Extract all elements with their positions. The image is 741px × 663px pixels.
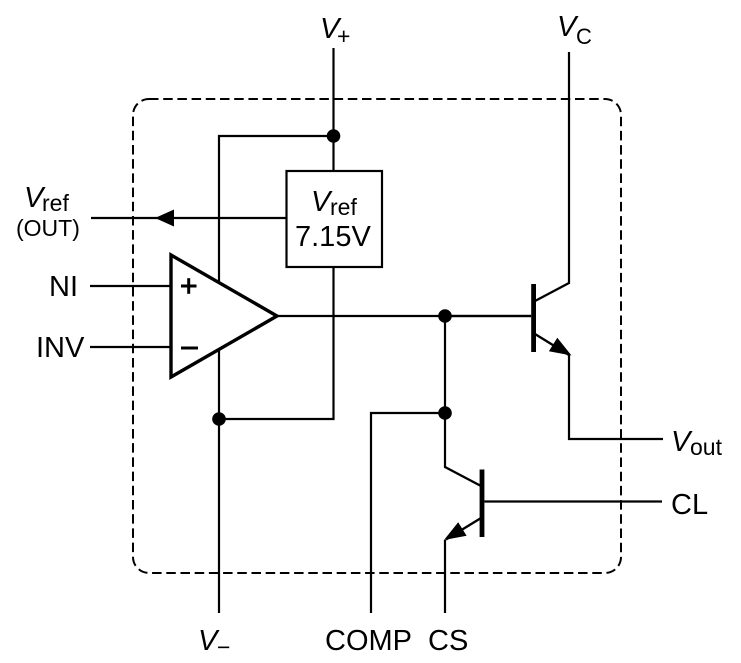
voltage reference box U2 Vref 7.15V: [287, 171, 383, 267]
Q1 base bar: [531, 284, 536, 352]
svg-text:7.15V: 7.15V: [295, 221, 371, 253]
Q2 collector line: [445, 467, 481, 486]
wire Vref box bottom to V- rail: [219, 267, 334, 419]
node: output junction dot: [438, 309, 452, 323]
svg-text:−: −: [217, 634, 230, 660]
node: COMP junction dot: [438, 406, 452, 420]
svg-text:NI: NI: [49, 271, 78, 303]
arrowhead on Vref output wire: [155, 210, 174, 227]
wire Vref output: [91, 217, 287, 219]
svg-text:(OUT): (OUT): [16, 215, 80, 241]
wire Q1 emitter to Vout: [569, 354, 663, 439]
node: V- junction dot: [212, 412, 226, 426]
wire VC stem to Q1 collector: [568, 52, 570, 284]
wire NI input: [90, 285, 172, 287]
svg-text:out: out: [690, 434, 723, 460]
wire V-: [218, 419, 220, 613]
wire COMP node to Q2 collector: [444, 413, 446, 468]
pin label V+: [320, 13, 350, 49]
svg-text:C: C: [576, 24, 592, 49]
wire COMP: [371, 413, 445, 613]
value label Vref inside box: [311, 186, 357, 220]
op-amp - input mark: [181, 347, 198, 350]
wire op-amp negative supply: [218, 350, 220, 419]
transistor Q2 (NPN current limit): [444, 467, 484, 540]
svg-text:CS: CS: [428, 625, 468, 657]
node: V+ junction dot: [327, 129, 341, 143]
svg-text:+: +: [337, 23, 350, 49]
svg-text:CL: CL: [671, 489, 708, 521]
transistor Q1 (NPN series pass): [531, 283, 571, 356]
wire output node down to COMP node: [444, 316, 446, 413]
Q1 emitter line: [535, 334, 569, 355]
op-amp U1 error amplifier: [171, 255, 277, 377]
pin label Vout: [671, 426, 723, 460]
wire op-amp output: [277, 315, 531, 317]
pin label V-: [198, 625, 230, 660]
Q2 emitter arrowhead: [444, 522, 467, 540]
wire V+ stem: [332, 48, 334, 171]
svg-text:ref: ref: [42, 190, 69, 216]
IC package dashed outline: [133, 99, 621, 573]
Q1 emitter arrowhead: [549, 338, 572, 356]
pin label VC: [557, 11, 592, 49]
wire INV input: [90, 346, 172, 348]
wire V+ node to op-amp positive supply: [219, 136, 334, 284]
svg-text:ref: ref: [330, 194, 357, 220]
wire Q2 emitter to CS: [444, 540, 446, 613]
Q2 base bar: [480, 470, 485, 538]
wire Q2 base to CL: [484, 500, 662, 502]
op-amp + input mark: [181, 278, 197, 294]
wire Q1 base: [445, 315, 531, 317]
pin label Vref (OUT): [16, 182, 80, 241]
svg-text:COMP: COMP: [325, 625, 412, 657]
Q2 emitter line: [446, 518, 481, 540]
Q1 collector line: [535, 283, 569, 301]
svg-text:INV: INV: [36, 332, 85, 364]
